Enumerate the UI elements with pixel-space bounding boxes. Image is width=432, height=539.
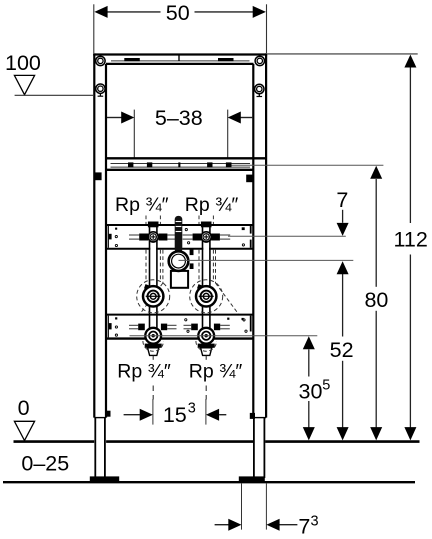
- leg left: [94, 418, 96, 478]
- upper rail right cap: [250, 226, 252, 234]
- upper mounting rail bottom edge: [107, 248, 253, 250]
- dimension 15.3 arrows: [140, 409, 153, 421]
- dimension 80 line: [375, 179, 377, 287]
- crossbar center tick: [178, 55, 180, 62]
- washbasin rail center tick: [178, 162, 180, 167]
- svg-text:3: 3: [188, 401, 196, 417]
- lower fitting clamps right pipe: [191, 324, 198, 331]
- valve left: [143, 284, 163, 306]
- anchor screw left: [96, 84, 105, 96]
- drain clamp lower: [190, 263, 194, 269]
- drain outlet box: [171, 271, 188, 288]
- svg-text:0: 0: [18, 396, 30, 420]
- raw slab line: [3, 481, 415, 483]
- frame top crossbar bottom edge: [106, 63, 254, 65]
- lower rail left cap: [107, 316, 109, 338]
- dimension 5-38 extension line left: [133, 110, 135, 158]
- svg-text:5: 5: [322, 378, 330, 394]
- frame leg junction right: [253, 417, 266, 419]
- svg-text:5–38: 5–38: [155, 106, 203, 130]
- elbow union right: [198, 328, 214, 344]
- corner screw top-right: [255, 56, 264, 65]
- washbasin rail clip 3: [207, 162, 212, 167]
- upper mounting rail top edge: [107, 224, 253, 226]
- lower rail right cap: [250, 316, 252, 332]
- svg-text:Rp ¾″: Rp ¾″: [189, 361, 243, 383]
- upper fitting clamps right pipe: [193, 234, 202, 241]
- washbasin rail clamp left: [95, 172, 102, 180]
- svg-text:50: 50: [166, 1, 190, 25]
- svg-text:7: 7: [298, 515, 310, 539]
- lower mounting rail bottom edge: [107, 337, 253, 339]
- dimension 50 arrow right: [253, 6, 266, 18]
- foot plate left: [90, 476, 119, 481]
- dimension 50 extension line left: [93, 4, 95, 53]
- dimension 112 line: [409, 61, 411, 223]
- lower fitting clamps left pipe: [138, 324, 145, 331]
- dimension 15.3 extension lines: [152, 399, 154, 425]
- frame left rail inner edge: [105, 64, 107, 418]
- dimension 52 line: [342, 274, 344, 337]
- dimension 7.3 extension lines: [241, 484, 243, 530]
- dimension 7 line: [342, 210, 344, 223]
- crossbar tab right: [218, 58, 234, 61]
- elbow union left: [145, 328, 161, 344]
- drain socket circle: [169, 251, 189, 271]
- corner screw top-left: [96, 56, 105, 65]
- dimension 5-38 arrow left: [121, 112, 134, 124]
- leader line to 80 dimension: [232, 164, 384, 166]
- svg-text:3: 3: [311, 513, 319, 529]
- pipe centerline dashed right: [205, 356, 207, 360]
- washbasin rail clamp right: [246, 175, 252, 183]
- svg-text:52: 52: [330, 338, 354, 362]
- leg clamp right: [250, 413, 255, 419]
- frame top crossbar inner line: [111, 60, 250, 62]
- drain clamp upper: [190, 249, 194, 255]
- upper rail left bracket: [109, 234, 112, 240]
- svg-text:30: 30: [299, 379, 323, 403]
- drain inlet stub: [175, 216, 183, 253]
- upper fitting rod lines: [129, 235, 230, 239]
- dimension 5-38 extension line right: [227, 110, 229, 158]
- lower rail left bracket: [109, 323, 112, 329]
- svg-text:0–25: 0–25: [21, 452, 69, 476]
- foot plate right: [239, 476, 265, 481]
- svg-text:Rp ¾″: Rp ¾″: [185, 194, 239, 216]
- dimension 50 arrow left: [94, 6, 107, 18]
- svg-text:15: 15: [163, 403, 187, 427]
- level mark 100 line: [15, 94, 93, 96]
- frame left rail outer edge: [93, 53, 95, 417]
- washbasin rail bottom edge: [106, 169, 254, 171]
- valve right dashed circle: [190, 280, 223, 313]
- crossbar tab left: [124, 58, 140, 61]
- level mark 0 triangle: [14, 421, 34, 440]
- valve left dashed circle: [137, 280, 170, 313]
- upper fitting screw right: [201, 232, 211, 242]
- upper rail holes: [115, 229, 244, 247]
- leader line to 52 dimension: [179, 259, 354, 261]
- supply pipe right: [203, 227, 210, 332]
- level mark 100 triangle: [14, 75, 34, 94]
- leader line to 7 dimension: [228, 235, 346, 237]
- upper fitting screw left: [148, 232, 158, 242]
- dimension 50 line: [107, 11, 160, 13]
- svg-text:Rp ¾″: Rp ¾″: [115, 194, 169, 216]
- svg-text:Rp ¾″: Rp ¾″: [117, 361, 171, 383]
- frame leg junction left: [94, 417, 106, 419]
- dimension 30.5 line: [308, 349, 310, 376]
- spout left: [145, 344, 162, 356]
- upper fitting cap right: [201, 222, 212, 228]
- dimension 7.3 arrows: [228, 519, 241, 531]
- leg right: [253, 418, 255, 478]
- dimension 7.3 line: [215, 524, 229, 526]
- washbasin rail inner lines: [111, 163, 251, 165]
- leg clamp left: [105, 411, 110, 417]
- upper fitting clamps left pipe: [139, 234, 148, 241]
- dimension 15.3 line: [124, 414, 140, 416]
- svg-text:100: 100: [5, 51, 41, 75]
- supply pipe left: [150, 227, 157, 332]
- svg-text:7: 7: [336, 188, 348, 212]
- dimension 5-38 line: [107, 117, 122, 119]
- washbasin rail top edge: [106, 157, 266, 159]
- leader line to 30.5 dimension: [130, 335, 318, 337]
- washbasin rail clip 2: [147, 162, 152, 167]
- washbasin rail clip 4: [226, 162, 232, 167]
- washbasin rail clip 1: [128, 162, 133, 167]
- lower fitting rod lines: [129, 325, 230, 329]
- frame right rail inner edge: [252, 64, 254, 418]
- finished floor line: [14, 440, 95, 443]
- anchor screw right: [255, 84, 264, 96]
- dashed clearance lines: [140, 216, 239, 315]
- spout right: [198, 344, 215, 356]
- upper rail left cap: [107, 226, 109, 248]
- upper fitting cap left: [148, 222, 159, 228]
- dimension 50 extension line right: [266, 4, 268, 53]
- spout dashed arcs: [143, 341, 164, 351]
- lower mounting rail top edge: [107, 314, 253, 316]
- frame top crossbar top edge: [93, 53, 267, 55]
- lower rail holes: [115, 319, 247, 337]
- frame right rail outer edge: [265, 53, 267, 417]
- pipe centerline dashed left: [152, 356, 154, 360]
- svg-text:112: 112: [394, 227, 428, 251]
- svg-text:80: 80: [364, 288, 388, 312]
- dimension 5-38 arrow right: [228, 112, 241, 124]
- valve right: [196, 284, 216, 306]
- extension line frame top to 112: [267, 53, 417, 55]
